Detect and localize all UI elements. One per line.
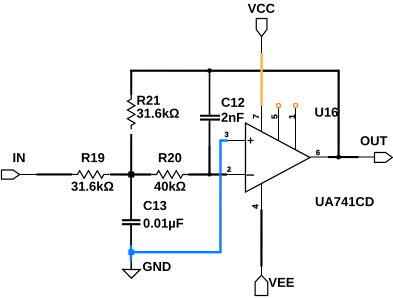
wire IN to R19 (36, 173, 72, 175)
wire left feedback vertical upper (rail corner to R21) (130, 70, 132, 95)
svg-text:2nF: 2nF (221, 110, 244, 125)
svg-text:3: 3 (225, 130, 229, 139)
resistor R21 (127, 95, 135, 129)
pin 3 lead (227, 140, 246, 141)
junction output node (336, 155, 341, 160)
wire blue net pin3 to C13/GND (131, 140, 228, 261)
svg-text:40kΩ: 40kΩ (154, 179, 186, 194)
junction blue dot (128, 249, 134, 255)
svg-text:GND: GND (142, 259, 171, 274)
pin 2 lead (227, 174, 246, 175)
svg-text:U16: U16 (315, 105, 339, 120)
svg-text:VCC: VCC (248, 1, 276, 16)
wire output node (328, 156, 359, 158)
resistor R19 (72, 171, 110, 179)
wire C12 to main node (208, 146, 210, 175)
pin 4 lead (261, 183, 262, 209)
wire right feedback vertical (337, 70, 339, 157)
pin 1 open circle (294, 103, 298, 107)
pin 5 open circle (276, 103, 280, 107)
svg-text:0.01µF: 0.01µF (143, 216, 184, 231)
svg-text:7: 7 (251, 114, 261, 119)
svg-text:R20: R20 (158, 150, 182, 165)
op-amp U16 (245, 123, 310, 192)
port OUT (374, 152, 392, 162)
svg-text:OUT: OUT (360, 133, 388, 148)
wire R19 to node A (110, 173, 151, 175)
capacitor C12 (200, 71, 220, 147)
power VCC (256, 19, 267, 54)
pin 6 lead (310, 156, 328, 157)
svg-text:31.6kΩ: 31.6kΩ (71, 179, 114, 194)
ground (123, 259, 141, 278)
svg-text:5: 5 (269, 114, 279, 119)
svg-text:R19: R19 (81, 150, 105, 165)
junction main node A (128, 171, 134, 177)
pin 5 lead (278, 108, 279, 141)
svg-text:IN: IN (12, 150, 25, 165)
power VEE (255, 267, 268, 296)
svg-text:C13: C13 (143, 198, 167, 213)
svg-text:2: 2 (227, 165, 231, 174)
port IN (1, 170, 36, 179)
svg-text:UA741CD: UA741CD (315, 194, 374, 209)
svg-text:4: 4 (250, 204, 260, 209)
svg-text:6: 6 (316, 148, 320, 157)
svg-text:C12: C12 (221, 95, 245, 110)
resistor R20 (150, 171, 188, 179)
pin 1 lead (295, 108, 296, 150)
svg-text:1: 1 (287, 114, 297, 119)
svg-text:VEE: VEE (268, 275, 294, 290)
wire left feedback vertical lower (R21 to main node) (130, 134, 132, 175)
wire R20 to op-amp pin 2 (188, 173, 227, 175)
wire pin 4 to VEE (260, 210, 262, 267)
port OUT lead (358, 156, 374, 157)
capacitor C13 (122, 175, 141, 245)
pin 7 lead (261, 106, 262, 133)
junction C12 / main wire (207, 173, 211, 177)
junction top rail / C12 (207, 68, 212, 73)
svg-text:31.6kΩ: 31.6kΩ (137, 106, 180, 121)
wire top feedback rail (130, 70, 339, 72)
wire VCC orange (260, 53, 263, 106)
